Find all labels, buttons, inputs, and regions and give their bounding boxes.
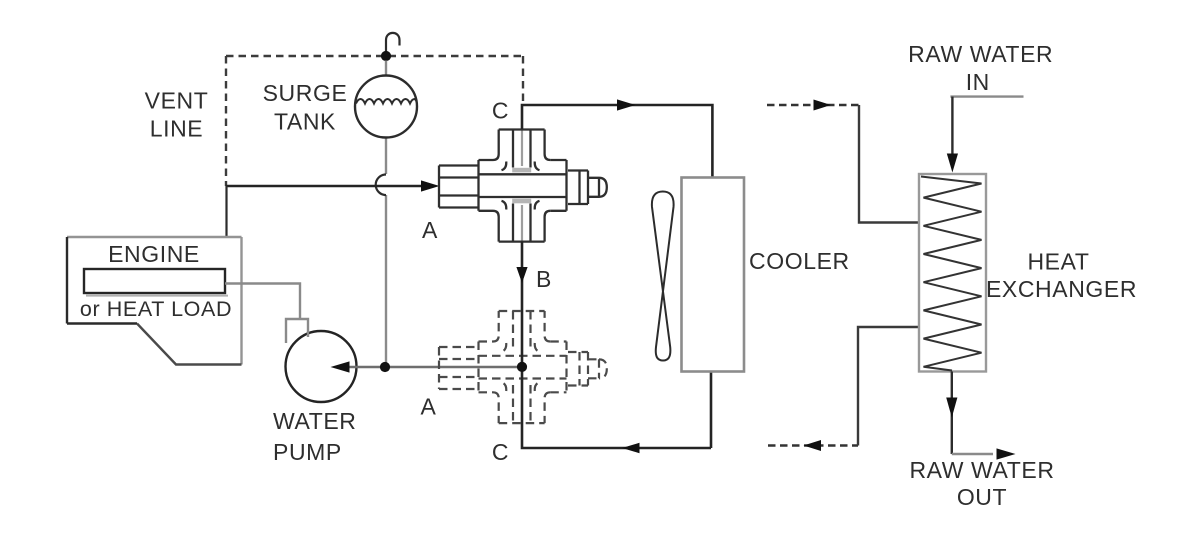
- svg-text:LINE: LINE: [150, 116, 204, 142]
- svg-text:SURGE: SURGE: [263, 80, 348, 106]
- svg-text:VENT: VENT: [145, 88, 209, 114]
- svg-text:RAW WATER: RAW WATER: [909, 457, 1054, 483]
- svg-text:C: C: [492, 98, 509, 124]
- svg-text:EXCHANGER: EXCHANGER: [986, 276, 1137, 302]
- svg-text:RAW WATER: RAW WATER: [908, 41, 1053, 67]
- svg-text:COOLER: COOLER: [749, 248, 850, 274]
- svg-text:HEAT: HEAT: [1027, 249, 1089, 275]
- svg-text:OUT: OUT: [957, 484, 1007, 510]
- svg-text:C: C: [492, 439, 509, 465]
- svg-text:A: A: [421, 394, 437, 420]
- svg-text:IN: IN: [966, 69, 990, 95]
- svg-text:ENGINE: ENGINE: [108, 241, 200, 267]
- svg-text:TANK: TANK: [274, 109, 336, 135]
- svg-text:PUMP: PUMP: [273, 439, 342, 465]
- svg-text:WATER: WATER: [273, 408, 357, 434]
- svg-text:B: B: [536, 266, 552, 292]
- svg-text:or HEAT LOAD: or HEAT LOAD: [80, 297, 232, 321]
- svg-text:A: A: [422, 217, 438, 243]
